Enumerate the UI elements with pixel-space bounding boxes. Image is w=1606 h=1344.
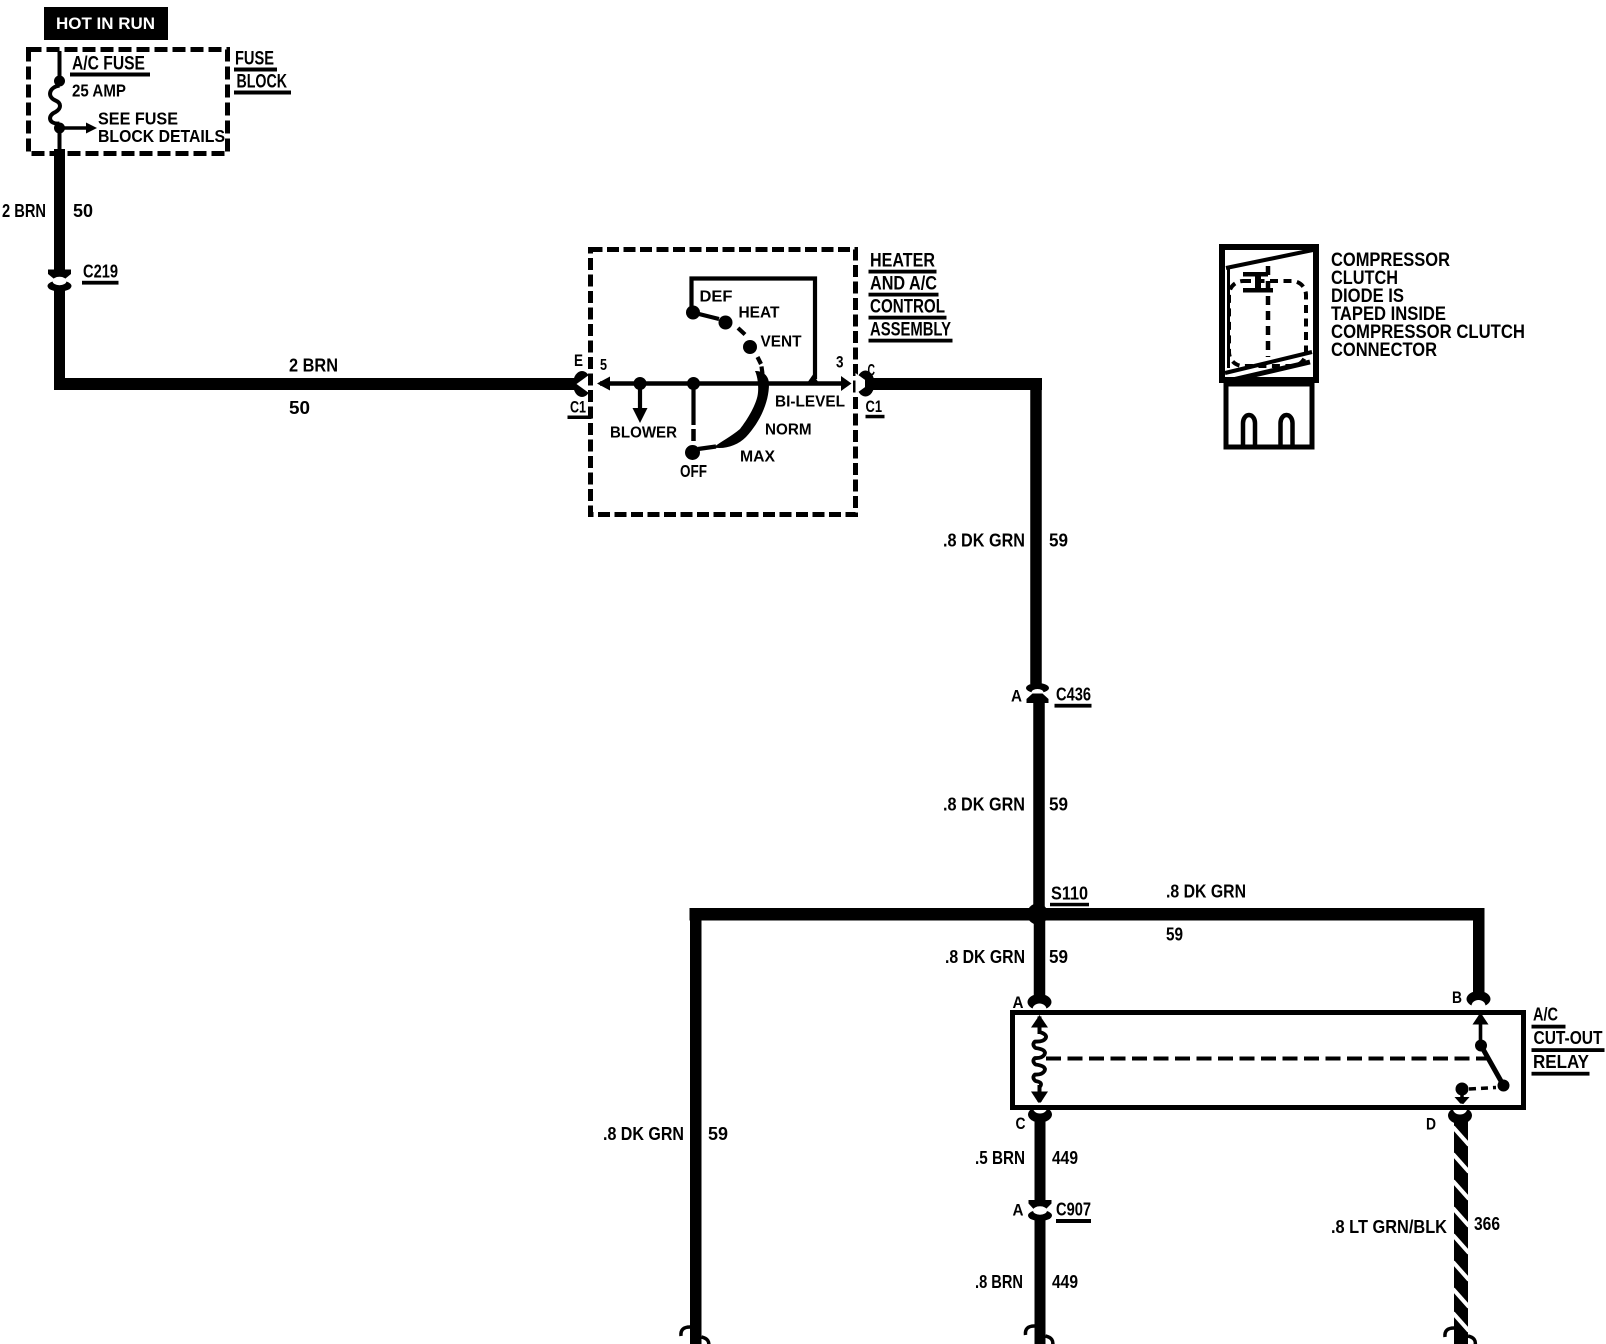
svg-text:DEF: DEF [700,289,733,306]
svg-text:C: C [868,362,876,380]
svg-text:59: 59 [1049,946,1068,967]
svg-text:59: 59 [1166,924,1183,945]
svg-text:ASSEMBLY: ASSEMBLY [870,320,951,341]
svg-text:.8 DK GRN: .8 DK GRN [945,946,1025,967]
svg-text:449: 449 [1052,1271,1078,1292]
svg-text:C219: C219 [83,261,118,282]
svg-text:C907: C907 [1056,1199,1091,1220]
svg-text:CONNECTOR: CONNECTOR [1331,340,1437,361]
svg-text:CUT-OUT: CUT-OUT [1534,1027,1604,1048]
svg-text:.5 BRN: .5 BRN [975,1147,1025,1168]
svg-text:AND A/C: AND A/C [870,274,937,295]
svg-text:HEATER: HEATER [870,251,935,272]
svg-text:S110: S110 [1051,883,1088,904]
svg-text:.8 DK GRN: .8 DK GRN [943,530,1025,551]
svg-text:FUSE: FUSE [235,49,274,70]
svg-text:59: 59 [708,1123,728,1144]
svg-text:.8 DK GRN: .8 DK GRN [603,1123,684,1144]
svg-text:C436: C436 [1056,684,1091,705]
svg-text:CONTROL: CONTROL [870,297,945,318]
svg-text:25 AMP: 25 AMP [72,81,126,101]
svg-text:50: 50 [73,200,93,221]
svg-text:RELAY: RELAY [1533,1051,1590,1072]
svg-text:A/C FUSE: A/C FUSE [72,54,145,75]
svg-text:NORM: NORM [765,422,812,439]
svg-text:BI-LEVEL: BI-LEVEL [775,394,845,411]
svg-text:.8 DK GRN: .8 DK GRN [943,794,1025,815]
svg-text:C1: C1 [570,398,586,417]
svg-text:449: 449 [1052,1147,1078,1168]
svg-text:2 BRN: 2 BRN [2,200,46,221]
svg-text:BLOWER: BLOWER [610,425,677,442]
svg-text:A/C: A/C [1533,1004,1558,1025]
svg-text:5: 5 [600,357,607,374]
svg-text:C1: C1 [866,397,883,416]
svg-text:2 BRN: 2 BRN [289,355,338,376]
svg-text:HEAT: HEAT [739,305,780,322]
svg-text:HOT IN RUN: HOT IN RUN [56,14,155,33]
svg-text:A: A [1013,993,1024,1012]
svg-text:VENT: VENT [761,334,802,351]
svg-text:BLOCK DETAILS: BLOCK DETAILS [98,126,225,146]
svg-text:A: A [1011,687,1022,706]
svg-text:A: A [1013,1201,1024,1220]
svg-text:E: E [574,351,583,370]
svg-text:.8 LT GRN/BLK: .8 LT GRN/BLK [1331,1216,1448,1237]
svg-text:3: 3 [836,354,844,372]
svg-text:59: 59 [1049,530,1068,551]
svg-text:50: 50 [289,397,310,418]
svg-text:59: 59 [1049,794,1068,815]
svg-text:OFF: OFF [680,461,707,481]
svg-text:D: D [1426,1115,1436,1134]
svg-text:366: 366 [1474,1213,1500,1234]
svg-text:C: C [1016,1114,1026,1133]
svg-text:BLOCK: BLOCK [237,72,288,93]
svg-text:.8 DK GRN: .8 DK GRN [1166,881,1246,902]
svg-text:.8 BRN: .8 BRN [975,1271,1023,1292]
svg-text:B: B [1452,988,1462,1007]
svg-text:MAX: MAX [740,449,775,466]
